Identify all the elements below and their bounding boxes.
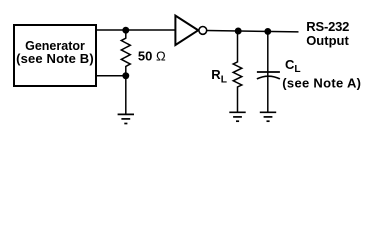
- inverter output bubble: [199, 27, 207, 35]
- resistor RL: [233, 31, 242, 112]
- ground (below 50 ohm resistor): [118, 114, 134, 123]
- wire: CL branch vertical: [267, 31, 269, 111]
- capacitor CL top plate: [257, 71, 280, 73]
- node: junction bottom of 50 ohm resistor: [122, 72, 129, 79]
- ground (below RL): [229, 112, 245, 121]
- resistor 50 ohm: [121, 30, 130, 76]
- capacitor CL bottom curved plate: [257, 76, 280, 79]
- wire: generator bottom port to resistor bottom: [96, 75, 126, 77]
- svg-text:Output: Output: [306, 33, 349, 48]
- inverter U1 triangle: [175, 16, 198, 45]
- wire: inverter output rail to RS-232 output: [207, 31, 299, 32]
- node: junction top of 50 ohm resistor: [122, 27, 129, 34]
- wire: resistor bottom junction to ground: [125, 76, 127, 114]
- generator box: [14, 25, 96, 86]
- ground (below CL): [260, 112, 276, 121]
- node: junction at RL: [235, 28, 242, 35]
- wire: generator top output to inverter input: [96, 29, 176, 31]
- node: junction at CL: [264, 28, 271, 35]
- svg-text:50 Ω: 50 Ω: [138, 49, 166, 64]
- svg-text:(see Note A): (see Note A): [282, 76, 361, 91]
- svg-text:RS-232: RS-232: [306, 19, 349, 34]
- svg-text:(see Note B): (see Note B): [16, 51, 94, 66]
